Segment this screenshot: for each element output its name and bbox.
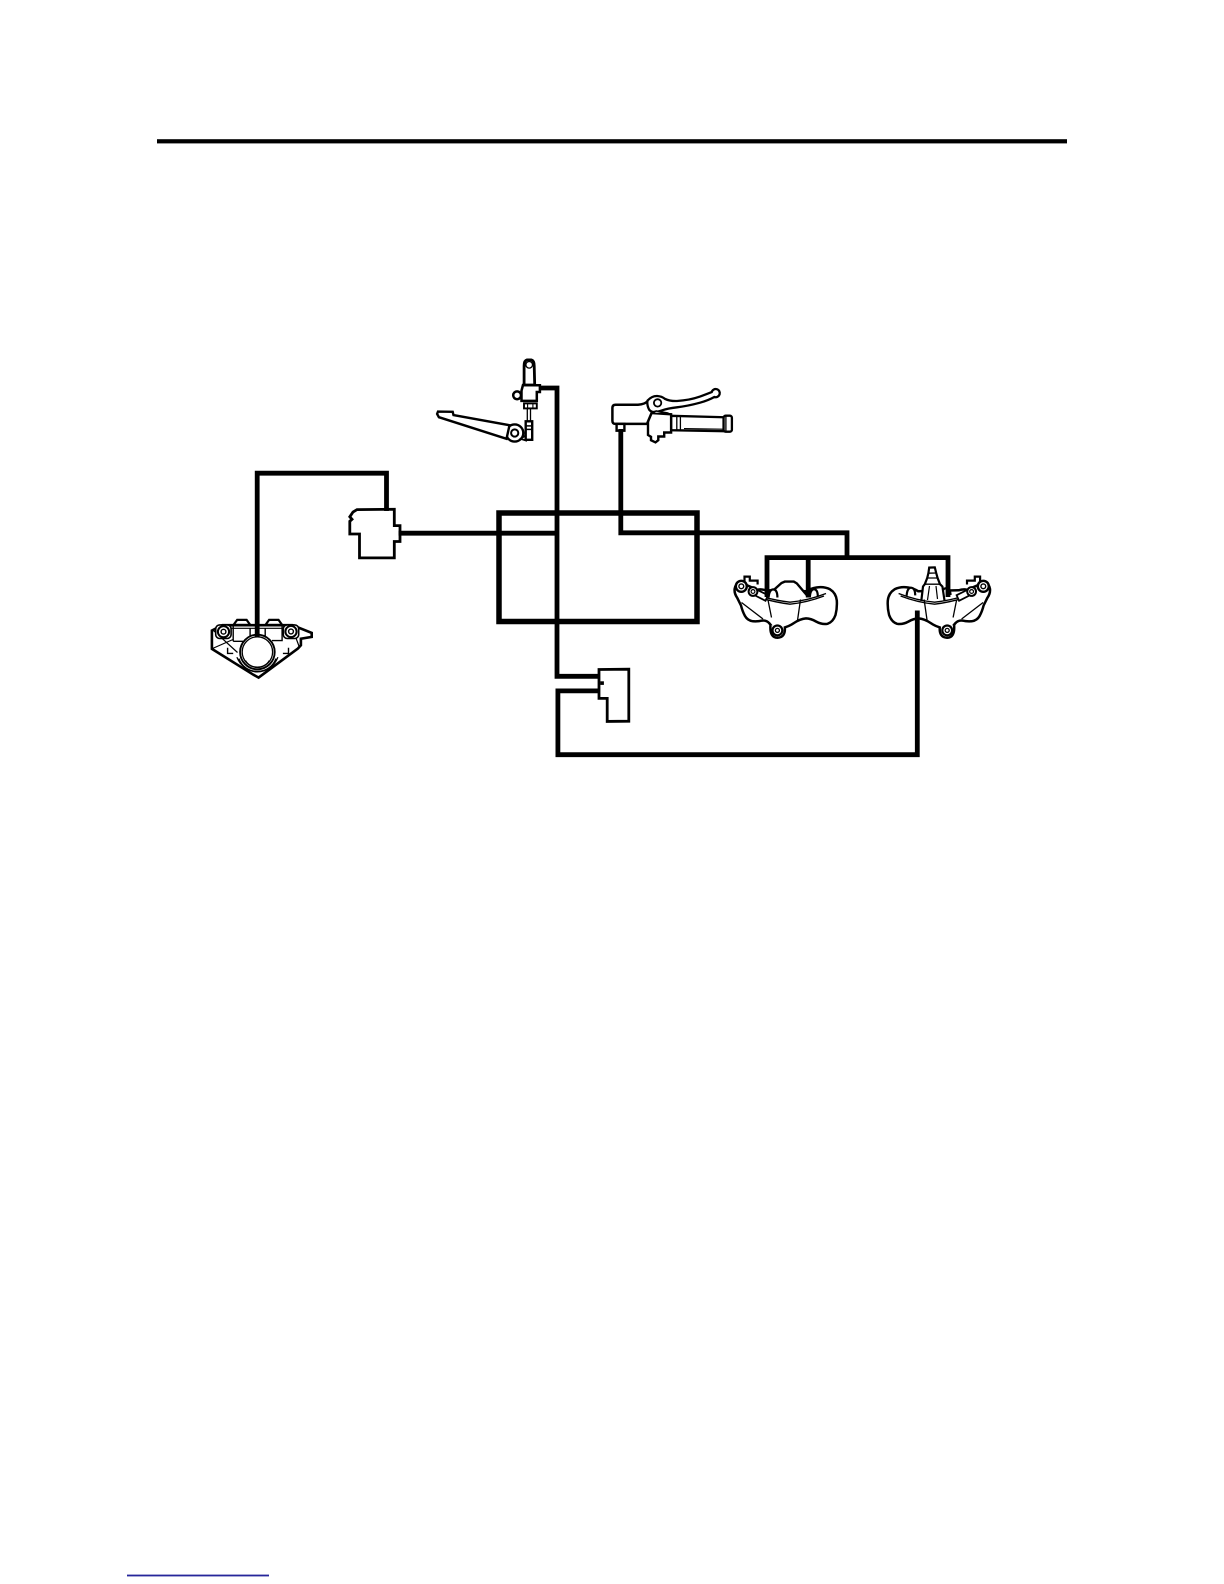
mount ear bottom — [770, 625, 785, 638]
rear caliper top tabs — [233, 620, 250, 625]
footer link line — [127, 1575, 269, 1577]
lug tabs — [967, 577, 980, 585]
pad dome left — [769, 589, 778, 597]
reservoir plunger — [524, 360, 535, 385]
right front caliper — [888, 567, 990, 637]
inner seams — [742, 600, 801, 621]
inner top line — [230, 627, 286, 629]
rear caliper mount circles — [218, 626, 229, 637]
top edge double line — [899, 594, 967, 605]
pad dome left — [907, 588, 916, 596]
blade root wedge — [653, 411, 668, 414]
handlebar grip — [671, 416, 724, 431]
rear caliper — [212, 620, 312, 678]
wire PCV valve to modulator — [399, 531, 558, 536]
body — [735, 582, 837, 628]
lug strut — [751, 588, 768, 601]
rear delay valve — [599, 669, 629, 721]
side diagonals — [213, 630, 300, 653]
body — [888, 582, 990, 628]
pedal-clevis link — [521, 435, 526, 440]
mount lug circles — [978, 581, 989, 592]
PCV valve — [350, 509, 400, 558]
left front caliper — [735, 577, 837, 638]
bore cradle arcs — [239, 659, 276, 672]
cylinder body — [522, 385, 540, 401]
mount lug circles — [736, 581, 747, 592]
pedal arm — [437, 412, 509, 439]
clevis — [526, 421, 533, 440]
header rule — [157, 139, 1067, 143]
nut — [524, 403, 537, 408]
modulator box — [499, 513, 697, 622]
pad dome right — [810, 589, 818, 597]
rear master cylinder with pedal — [437, 360, 540, 442]
pushrod — [527, 409, 530, 422]
body boss — [513, 391, 521, 399]
pedal boss — [506, 424, 523, 441]
lug strut — [957, 588, 974, 601]
body — [212, 625, 312, 677]
front brake lever assembly — [612, 389, 731, 442]
ear bosses — [216, 625, 231, 639]
lever perch bracket — [648, 413, 671, 443]
lug tabs — [745, 577, 758, 585]
wire rear-MC to modulator to rear valve (main vertical hose) — [539, 388, 600, 676]
master cylinder body — [612, 401, 652, 424]
wire rear caliper to PCV valve — [257, 473, 386, 637]
grip end cap — [724, 416, 732, 432]
top edge double line — [758, 594, 826, 605]
lever pivot — [654, 399, 661, 406]
wire front caliper manifold — [767, 558, 948, 597]
pad dome right — [942, 588, 951, 596]
joint tower — [921, 567, 944, 601]
rear caliper bore — [240, 635, 275, 670]
banjo fitting — [617, 424, 625, 431]
wire front lever hose through modulator to front split — [621, 429, 847, 558]
wire rear valve loop to right caliper bottom — [558, 611, 917, 755]
inner seams — [924, 600, 983, 621]
pad strips — [233, 625, 282, 641]
mount ear bottom — [940, 625, 955, 638]
pad step brackets — [228, 648, 289, 654]
lever blade — [647, 389, 719, 412]
pad spring mountain — [767, 582, 808, 597]
wire middle drop to left caliper — [806, 558, 811, 598]
